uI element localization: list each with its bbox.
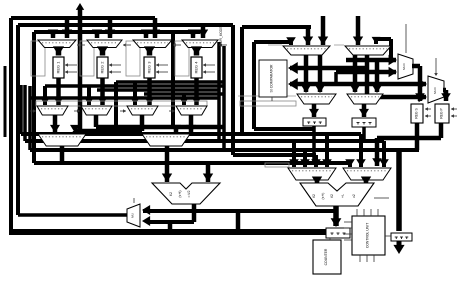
svg-text:REG 3: REG 3: [147, 61, 152, 74]
wire mux M15 output to latch D3: [362, 104, 367, 117]
wire jog line B to bottom bus: [168, 222, 173, 232]
svg-text:St COMPARATOR: St COMPARATOR: [270, 64, 274, 92]
wire drop into mux M2 input a: [95, 32, 100, 38]
wire bus y3 to latch D4: [396, 150, 402, 231]
wire drop into mux M4 input a: [191, 32, 196, 38]
wire operand bus y4: [233, 153, 316, 157]
mux M13 4:1: [345, 46, 391, 55]
wire control unit left ticks: [344, 221, 352, 223]
wire mux M7 output jog to mux M9: [140, 115, 145, 131]
mux M17 2:1 vertical: [428, 76, 444, 103]
wire enable into register R1: [65, 71, 77, 73]
comparator U1: [259, 60, 287, 97]
wire drop into mux M4 input b: [201, 25, 206, 38]
wire vertical x116: [114, 82, 118, 127]
svg-text:(s+t): (s+t): [178, 190, 182, 197]
wire select into mux M16: [405, 24, 407, 53]
wire operand bus y2: [25, 139, 384, 143]
svg-text:COUNTER: COUNTER: [324, 248, 328, 265]
wire comparator loop to latch D2 line y129: [254, 127, 314, 131]
wire enable into register R4: [203, 71, 215, 73]
svg-text:REG 2: REG 2: [100, 61, 105, 74]
ALU U3: [300, 183, 374, 206]
wire register bundle line y82: [116, 80, 224, 84]
wire mux M1 to register R1: [56, 48, 62, 56]
wire drop into mux MA input 4: [325, 134, 329, 167]
wire drop into mux MA input 1: [292, 141, 296, 167]
mux MB 4:1: [343, 168, 391, 180]
wire feedback loop rect of mux M3: [126, 41, 140, 76]
wire drop into mux M1 input b: [65, 18, 70, 38]
wire clock into register R1: [65, 64, 77, 66]
register R4: [191, 57, 202, 78]
wire mux M17 output to register RP: [443, 88, 446, 93]
mux M12 4:1: [283, 46, 330, 55]
wire to mux10 input y60: [346, 58, 396, 63]
wire drop into mux M5 input a: [43, 86, 47, 105]
wire left vertical bus x25: [23, 85, 27, 141]
wire register bundle line y90: [97, 88, 219, 92]
wire right loop top and vertical x242: [242, 25, 311, 29]
wire mux M2 to register R2: [100, 48, 106, 56]
wire left vertical bus x21: [19, 85, 23, 134]
wire select into mux M11: [133, 198, 135, 203]
wire ALU3 result line A y211: [143, 209, 338, 213]
wire arrow line B into mux M11: [142, 216, 150, 226]
wire control unit bottom ticks: [359, 255, 361, 262]
mux M14 2:1: [297, 94, 336, 104]
svg-text:REG 4: REG 4: [194, 61, 199, 74]
wire mux M5 output to mux M9: [53, 115, 58, 133]
mux M6 2:1: [81, 106, 112, 115]
wire register R4 output down: [194, 78, 199, 105]
mux M8 2:1: [176, 106, 207, 115]
wire mux11 output to left bus: [18, 213, 127, 217]
wire control arrows into register RB: [425, 108, 431, 110]
wire ALU U3 output to latch D1: [333, 206, 339, 226]
wire drop into mux M3 input a: [144, 32, 149, 38]
wire drop into mux M15 input b: [375, 60, 380, 92]
wire clock into register R4: [203, 64, 215, 66]
mux M1 4:1: [38, 40, 76, 48]
svg-text:= t/2: = t/2: [187, 190, 191, 197]
wire comparator bottom stub: [271, 97, 273, 101]
wire ALU U3 control stub: [374, 197, 389, 199]
wire latch D4 output arrow: [397, 241, 402, 249]
wire to mux9 input y97: [367, 95, 426, 100]
wire mux M16 output to register RB: [412, 64, 420, 69]
wire drop into mux M2 input b: [108, 18, 113, 38]
wire mux M3 to register R3: [147, 48, 153, 56]
wire drop into mux M14 input b: [318, 55, 323, 92]
svg-text:WR_MODE: WR_MODE: [219, 27, 223, 44]
wire drop into mux MA input 3: [314, 155, 318, 167]
mux M3 4:1: [133, 40, 172, 48]
register RP: [435, 104, 449, 123]
wire bus L2 top feedback: [18, 23, 233, 27]
wire mux M6 output jog to mux M10: [94, 115, 99, 127]
register R1: [53, 57, 64, 78]
wire bus L3 top feedback: [34, 30, 200, 34]
register R3: [144, 57, 155, 78]
mux M9 4:1 wide: [38, 134, 86, 146]
wire enable into register R3: [156, 71, 168, 73]
wire bottom result bus y232: [9, 229, 340, 235]
wire bundle vertical x219: [217, 42, 221, 141]
svg-text:CONTROL UNIT: CONTROL UNIT: [366, 223, 370, 248]
wire select into mux M3: [173, 44, 181, 46]
counter: [313, 240, 341, 274]
wire select into mux M7: [120, 110, 126, 112]
ALU U2: [152, 183, 220, 204]
wire arrow line A into mux M11: [142, 205, 150, 215]
wire drop into mux M8 input a: [182, 94, 186, 105]
wire mux6 output down: [365, 55, 370, 97]
wire clock into register R3: [156, 64, 168, 66]
svg-text:REG 1: REG 1: [56, 61, 61, 74]
wire mux MA output into ALU U3: [315, 180, 320, 185]
wire bus L1 top feedback: [11, 16, 155, 20]
wire drop into mux MB input 4: [382, 141, 386, 167]
wire feedback loop rect of mux M4: [175, 41, 189, 76]
wire operand bus y3: [30, 148, 419, 152]
mux M15 2:1: [347, 94, 383, 104]
wire counter top stub: [329, 238, 331, 240]
wire input into mux M12: [321, 16, 326, 45]
svg-text:REG S: REG S: [415, 107, 419, 118]
latch D4: [391, 233, 412, 241]
wire control unit to latch D4 tick: [385, 235, 391, 237]
mux M2 4:1: [87, 40, 122, 48]
wire ALU2 result line B y222: [192, 203, 197, 222]
wire latch2 to muxB line y161 right: [312, 126, 316, 163]
wire REG P output to muxB: [439, 123, 444, 138]
wire register R2 output down: [100, 78, 105, 105]
svg-text:t/2: t/2: [312, 194, 316, 198]
wire left vertical bus x5: [4, 66, 7, 137]
wire comparator output loop to mux5: [252, 42, 256, 129]
wire drop into mux M3 input b: [153, 18, 158, 38]
wire mux5 output to comparator y68: [304, 55, 309, 92]
wire operand bus y1: [21, 132, 361, 136]
svg-text:x2: x2: [352, 194, 356, 198]
svg-text:t/2: t/2: [330, 194, 334, 198]
wire to mux10 input y72: [336, 70, 396, 75]
wire drop into mux MB input 1: [348, 163, 352, 167]
wire control arrows into register RP: [451, 108, 457, 110]
wire mux MB output into ALU U3: [364, 180, 369, 185]
wire select into mux M1: [77, 44, 85, 46]
latch D2: [303, 118, 326, 126]
wire vertical x173: [171, 30, 175, 127]
latch D3: [352, 118, 376, 127]
wire select into mux M6: [74, 110, 80, 112]
wire select rail rect above row-2 muxes: [36, 101, 207, 106]
wire drop into mux M1 input a: [51, 32, 56, 38]
wire select into mux M2: [123, 44, 131, 46]
wire mux6 feedback loop: [376, 37, 391, 41]
wire mux31 to ALU2 line y163: [60, 146, 65, 163]
wire output arrow to top edge: [78, 8, 83, 134]
svg-text:REG P: REG P: [440, 107, 444, 118]
wire register bundle line y86: [45, 84, 224, 88]
mux M5 2:1: [37, 106, 68, 115]
wire control unit top ticks: [356, 209, 358, 216]
mux M4 4:1: [182, 40, 218, 48]
wire drop into mux MA input 2: [303, 150, 307, 167]
wire select into mux M4: [219, 44, 227, 46]
wire drop into mux M6 input a: [87, 86, 91, 105]
register RB: [411, 104, 423, 123]
svg-text:MU: MU: [131, 213, 135, 218]
wire feedback loop rect of mux M1: [31, 41, 45, 76]
wire drop into mux MB input 2: [359, 134, 363, 167]
wire register R1 output down: [56, 78, 61, 105]
wire mux M10 output into ALU U2 left input: [165, 146, 170, 182]
wire select rail left of mux M12: [268, 44, 282, 46]
mux M11 2:1 vertical: [127, 204, 140, 227]
wire right loop vertical x233: [231, 25, 235, 155]
mux M10 4:1 wide: [142, 134, 190, 146]
wire comparator line y84: [290, 82, 426, 87]
svg-text:MUX: MUX: [433, 87, 437, 94]
wire select into mux M17: [435, 58, 437, 75]
wire jog line A to bottom bus x238: [236, 211, 241, 232]
wire register R3 output down: [147, 78, 152, 105]
latch D1: [326, 228, 350, 238]
wire register bundle line y98: [30, 96, 219, 100]
mux MA 4:1: [288, 168, 336, 180]
svg-text:+/-: +/-: [341, 194, 345, 198]
wire drop into mux M12 from loop: [306, 27, 311, 45]
wire drop into mux M7 input a: [133, 82, 137, 105]
mux M7 2:1: [127, 106, 158, 115]
mux M16 2:1 vertical: [398, 54, 413, 79]
wire feedback loop rect of mux M2: [80, 41, 94, 76]
register R2: [97, 57, 108, 78]
wire left vertical bus x30: [28, 86, 32, 150]
wire select rail left of mux M13: [334, 44, 344, 46]
wire mux M4 to register R4: [194, 48, 200, 56]
wire input into mux M13: [356, 16, 361, 45]
svg-text:(s+t): (s+t): [321, 193, 325, 200]
svg-text:MUX: MUX: [402, 63, 406, 70]
wire latch D3 output to bus y2: [362, 127, 366, 141]
svg-text:t/2: t/2: [169, 192, 173, 196]
wire select into mux M5: [30, 110, 36, 112]
wire enable into register R2: [109, 71, 121, 73]
wire bundle vertical x224: [222, 46, 226, 150]
wire mux M14 output to latch D2: [312, 104, 317, 117]
wire select rect left of mux MA: [265, 163, 289, 167]
wire clock into register R2: [109, 64, 121, 66]
wire drop into mux M15 input a: [353, 55, 358, 92]
wire REG B output to bus y3: [415, 123, 420, 150]
wire mux M8 output to mux M10: [189, 115, 194, 133]
wire bus y161 into ALU U2 right input: [206, 163, 211, 182]
control unit: [352, 216, 385, 255]
wire select into mux M8: [169, 110, 175, 112]
wire select rail above mux M14 and M15: [240, 101, 296, 106]
wire register bundle line y94: [144, 92, 224, 96]
